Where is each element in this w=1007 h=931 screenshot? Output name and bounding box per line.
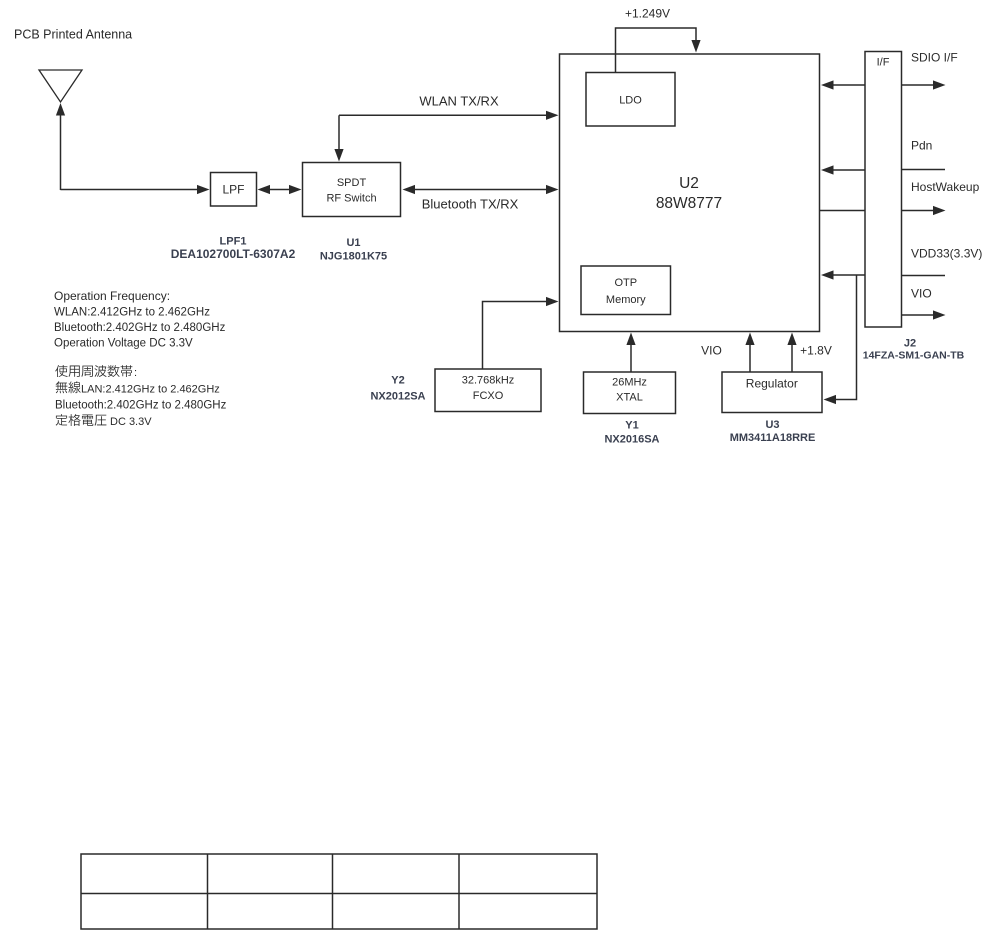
svg-text:32.768kHz: 32.768kHz (462, 375, 515, 387)
wire VDD33 out (902, 275, 946, 277)
SPDT RF switch U1 (303, 163, 401, 217)
svg-text:DEA102700LT-6307A2: DEA102700LT-6307A2 (171, 247, 296, 261)
svg-text:Operation Frequency:: Operation Frequency: (54, 289, 170, 303)
svg-text:DC 3.3V: DC 3.3V (110, 416, 152, 428)
svg-text:LPF: LPF (222, 183, 244, 197)
internal block OTP Memory (581, 266, 671, 315)
svg-text:14FZA-SM1-GAN-TB: 14FZA-SM1-GAN-TB (863, 350, 965, 362)
wire WLAN TX/RX: SPDT top to U2 left (338, 115, 340, 149)
svg-text:Y2: Y2 (391, 375, 404, 387)
svg-text:LDO: LDO (619, 95, 642, 107)
note: japanese operation frequency text block (55, 365, 67, 377)
svg-text:U1: U1 (346, 237, 360, 249)
svg-text:U3: U3 (765, 419, 779, 431)
wire Pdn: I/F to U2 (833, 169, 865, 171)
svg-text:FCXO: FCXO (473, 390, 504, 402)
interface connector I/F (865, 52, 902, 328)
svg-text:Bluetooth TX/RX: Bluetooth TX/RX (422, 197, 519, 212)
wire VDD33: I/F to U2 (833, 274, 865, 276)
wire HostWakeup out (902, 210, 934, 212)
svg-text:+1.249V: +1.249V (625, 7, 670, 21)
svg-text:Bluetooth:2.402GHz to 2.480GHz: Bluetooth:2.402GHz to 2.480GHz (54, 322, 226, 334)
antenna ANT1 (PCB printed antenna symbol) (39, 70, 82, 102)
svg-text:I/F: I/F (877, 57, 890, 69)
wire +1.249V: LDO top loop into U2 top (616, 28, 697, 73)
svg-text:OTP: OTP (614, 277, 637, 289)
svg-text:PCB Printed Antenna: PCB Printed Antenna (14, 28, 132, 42)
regulator U3 (722, 372, 822, 413)
svg-text:HostWakeup: HostWakeup (911, 180, 980, 194)
svg-text::: : (134, 367, 137, 379)
svg-text:SDIO I/F: SDIO I/F (911, 51, 958, 65)
svg-text:WLAN TX/RX: WLAN TX/RX (419, 94, 499, 109)
svg-text:RF Switch: RF Switch (326, 193, 376, 205)
svg-text:VDD33(3.3V): VDD33(3.3V) (911, 247, 982, 261)
svg-text:NX2016SA: NX2016SA (604, 434, 659, 446)
wire LPF to SPDT (bidirectional) (269, 189, 290, 191)
svg-text:88W8777: 88W8777 (656, 195, 722, 212)
wire Pdn out (902, 169, 946, 171)
wire VDD33 branch down to regulator input (835, 275, 857, 400)
svg-text:LPF1: LPF1 (220, 236, 247, 248)
wire XTAL to U2 bottom (630, 344, 632, 372)
svg-text:U2: U2 (679, 175, 699, 192)
svg-text:Regulator: Regulator (746, 377, 798, 391)
main chip U2 88W8777 (560, 54, 820, 332)
svg-text:LAN:2.412GHz to 2.462GHz: LAN:2.412GHz to 2.462GHz (81, 383, 220, 395)
wire SDIO I/F out (902, 84, 934, 86)
crystal 26MHz XTAL Y1 (584, 372, 676, 414)
internal block LDO (586, 73, 675, 127)
svg-text:VIO: VIO (701, 343, 722, 357)
svg-text:26MHz: 26MHz (612, 377, 647, 389)
wire antenna feed: vertical up into antenna apex (60, 113, 62, 190)
svg-text:SPDT: SPDT (337, 177, 367, 189)
32.768kHz FCXO oscillator Y2 (435, 369, 541, 412)
svg-text:Operation Voltage DC 3.3V: Operation Voltage DC 3.3V (54, 338, 193, 350)
wire VIO: regulator to U2 bottom (749, 344, 751, 372)
wire VIO out (902, 314, 934, 316)
svg-text:J2: J2 (904, 338, 916, 350)
wire HostWakeup: U2 to I/F (820, 210, 866, 212)
svg-text:XTAL: XTAL (616, 392, 643, 404)
svg-text:+1.8V: +1.8V (800, 343, 832, 357)
revision table (81, 854, 597, 929)
wire SDIO: I/F to U2 (833, 84, 865, 86)
svg-text:VIO: VIO (911, 287, 932, 301)
low-pass filter LPF (211, 173, 257, 207)
svg-text:Pdn: Pdn (911, 139, 932, 153)
svg-text:Memory: Memory (606, 294, 646, 306)
svg-text:WLAN:2.412GHz to 2.462GHz: WLAN:2.412GHz to 2.462GHz (54, 307, 210, 319)
svg-text:Y1: Y1 (625, 420, 638, 432)
svg-text:Bluetooth:2.402GHz to 2.480GHz: Bluetooth:2.402GHz to 2.480GHz (55, 400, 227, 412)
wire +1.8V: regulator to U2 bottom (791, 344, 793, 372)
svg-text:NX2012SA: NX2012SA (370, 391, 425, 403)
wire antenna to LPF (61, 189, 199, 191)
svg-text:NJG1801K75: NJG1801K75 (320, 251, 387, 263)
wire Bluetooth TX/RX: SPDT right to U2 left (bidirectional) (414, 189, 547, 191)
svg-text:MM3411A18RRE: MM3411A18RRE (730, 432, 816, 444)
wire FCXO to U2 (32.768kHz clock) (483, 302, 547, 370)
